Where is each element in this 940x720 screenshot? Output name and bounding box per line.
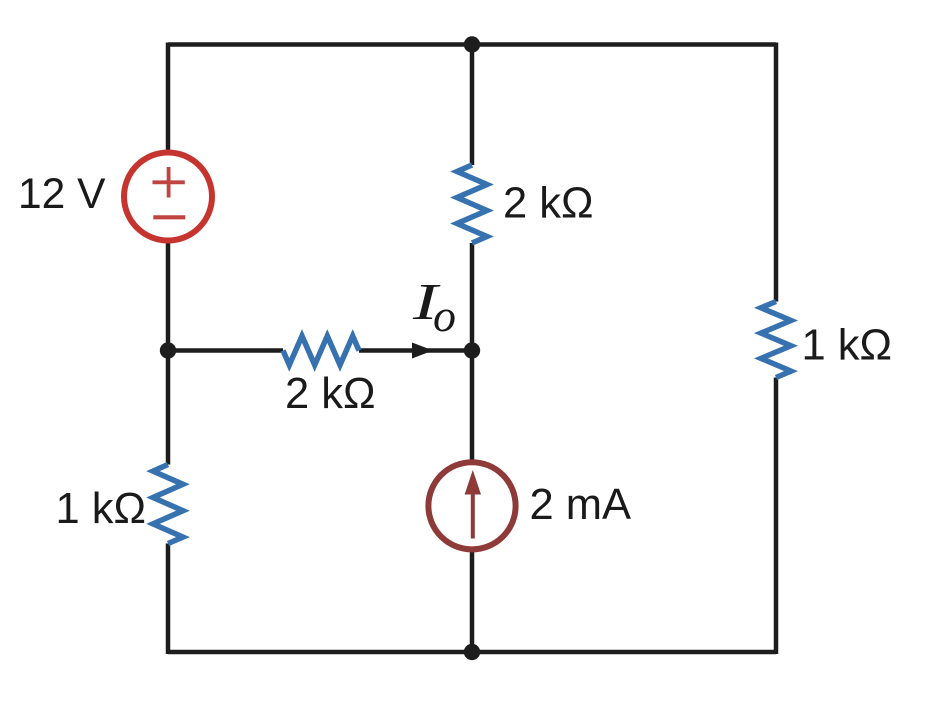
svg-text:12 V: 12 V (18, 171, 106, 218)
svg-text:1 kΩ: 1 kΩ (56, 485, 147, 533)
svg-text:o: o (433, 290, 456, 341)
svg-text:1 kΩ: 1 kΩ (802, 322, 893, 370)
svg-text:2 kΩ: 2 kΩ (285, 370, 376, 418)
svg-text:2 mA: 2 mA (530, 481, 632, 529)
svg-text:2 kΩ: 2 kΩ (503, 180, 594, 228)
